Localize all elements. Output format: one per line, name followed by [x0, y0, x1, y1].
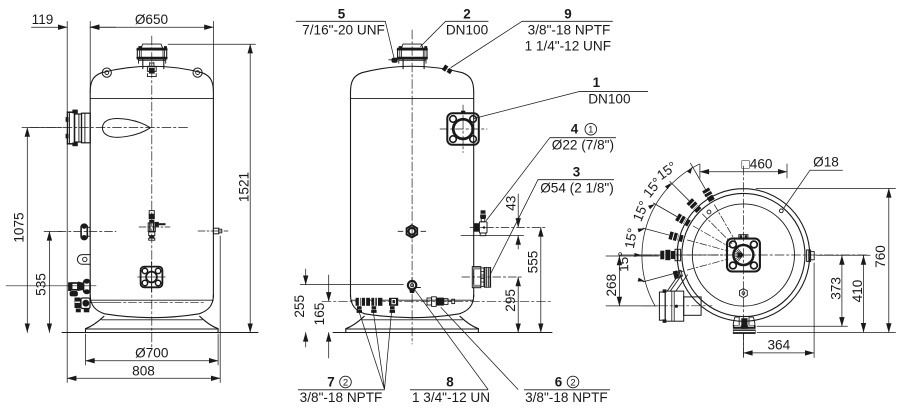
svg-text:255: 255	[292, 295, 307, 318]
svg-text:3/8"-18 NPTF: 3/8"-18 NPTF	[525, 390, 608, 405]
bottom plug group 3 (3/8-18 NPTF)	[389, 298, 398, 313]
svg-text:295: 295	[503, 289, 518, 312]
lifting lug left	[102, 68, 111, 77]
fitting 7/16-20 UNF (callout 5 target)	[389, 58, 398, 63]
dimension 373	[757, 256, 848, 327]
boss Ø54 on right wall (callout 3 target)	[462, 267, 522, 288]
dome head	[351, 66, 474, 92]
svg-text:760: 760	[873, 245, 888, 268]
dimension Ø650	[90, 21, 213, 92]
svg-text:2: 2	[570, 378, 575, 389]
lifting lug right	[193, 68, 202, 77]
leader callout 8	[413, 288, 488, 390]
horizontal centerline (torpedo nozzle axis)	[30, 127, 188, 129]
shoulder fitting (callout 9 target)	[442, 65, 453, 75]
axis line 195deg	[643, 259, 728, 282]
svg-text:1521: 1521	[237, 172, 252, 202]
leader callout 5	[385, 21, 394, 58]
dimension 364	[743, 263, 814, 358]
rim hole right (Ø18)	[779, 209, 783, 213]
small plug on right wall	[198, 228, 228, 234]
dimension 165	[328, 275, 330, 358]
svg-text:364: 364	[767, 338, 790, 353]
radial plug 165deg	[642, 224, 729, 254]
dimension 555	[540, 227, 542, 332]
dimension 760	[756, 188, 896, 332]
square flange (side view center)	[138, 262, 165, 292]
svg-text:119: 119	[32, 12, 54, 27]
bracket tab with hole on left wall	[77, 255, 90, 265]
double plug assembly on left wall (y302)	[75, 298, 206, 313]
radial plug 150deg	[651, 200, 731, 251]
leader callout 4	[486, 138, 550, 221]
svg-text:2: 2	[463, 6, 470, 21]
small oval nozzle on left wall	[58, 224, 116, 239]
svg-text:3/8"-18 NPTF: 3/8"-18 NPTF	[528, 23, 611, 38]
svg-text:1: 1	[588, 125, 593, 136]
radial plug 180deg	[619, 249, 727, 261]
leader callout 3	[491, 180, 539, 274]
vertical centerline	[742, 166, 744, 359]
rim hole left	[707, 210, 711, 214]
bottom plug group 2 (3/8-18 NPTF)	[371, 298, 382, 313]
svg-text:4: 4	[571, 122, 579, 137]
hex valve on shell mid (front)	[398, 225, 426, 237]
svg-text:1 3/4"-12 UN: 1 3/4"-12 UN	[412, 390, 490, 405]
angular dimension arc	[642, 164, 699, 306]
tank shell (side view)	[86, 66, 219, 332]
svg-text:5: 5	[338, 6, 346, 21]
svg-text:2: 2	[343, 378, 348, 389]
side nozzle (torpedo) assembly in top view, axis y=305.8	[642, 269, 712, 322]
apex vent fitting	[147, 63, 156, 77]
svg-text:1 1/4"-12 UNF: 1 1/4"-12 UNF	[525, 39, 611, 54]
svg-text:7: 7	[327, 374, 334, 389]
svg-text:8: 8	[446, 374, 454, 389]
vertical centerline	[151, 36, 153, 348]
svg-text:268: 268	[604, 274, 619, 297]
dome weld seam	[90, 98, 213, 100]
svg-text:410: 410	[850, 279, 865, 302]
svg-text:9: 9	[564, 6, 571, 21]
radial plug 135deg	[667, 179, 735, 247]
leader callout 9	[451, 21, 522, 67]
arc arrow heads (radially outward)	[634, 166, 694, 284]
side nozzle flange with torpedo diffuser	[66, 110, 151, 147]
body	[665, 291, 684, 321]
top flange stack	[137, 44, 167, 69]
dimension square460	[700, 164, 787, 178]
svg-text:15°: 15°	[616, 251, 632, 272]
dome crown circle	[692, 204, 794, 306]
dimension 410	[817, 255, 870, 332]
round boss on shell (callout 8 target)	[408, 278, 421, 294]
svg-text:3/8"-18 NPTF: 3/8"-18 NPTF	[300, 390, 383, 405]
svg-text:Ø22 (7/8"): Ø22 (7/8")	[552, 138, 614, 153]
slanted connector pipe up to rim	[667, 269, 687, 291]
svg-text:DN100: DN100	[446, 23, 489, 38]
dimension 255	[300, 269, 403, 347]
dimension 535	[44, 231, 62, 332]
svg-text:535: 535	[34, 273, 49, 296]
center valve fitting (side view)	[139, 211, 170, 241]
svg-text:3: 3	[573, 165, 580, 180]
svg-text:1: 1	[593, 75, 601, 90]
valve assembly on left wall (y285)	[6, 280, 96, 297]
svg-text:555: 555	[526, 251, 541, 274]
fitting Ø22 on right wall (callout 4 target)	[470, 210, 547, 235]
bottom dish	[351, 295, 474, 318]
horizontal centerline	[643, 254, 868, 256]
bottom plug group 1 (3/8-18 NPTF)	[356, 298, 370, 313]
barrel to rim	[684, 297, 701, 315]
svg-text:6: 6	[555, 374, 562, 389]
bottom foot / drain fitting	[733, 317, 756, 334]
torpedo	[102, 119, 150, 138]
shell circle Ø650	[682, 193, 805, 316]
leader callout 1	[474, 91, 580, 118]
svg-text:15°: 15°	[622, 227, 640, 250]
svg-text:Ø54 (2 1/8"): Ø54 (2 1/8")	[540, 181, 614, 196]
svg-text:808: 808	[132, 363, 155, 378]
small hex plug below center	[740, 289, 748, 298]
flange plate	[659, 292, 665, 320]
floor / ground line	[333, 331, 552, 333]
leader Ø18	[784, 170, 843, 208]
dimension 119	[32, 21, 117, 120]
skirt	[346, 316, 364, 332]
base ring circle Ø700	[677, 189, 810, 322]
dimension Ø700	[86, 334, 219, 365]
svg-text:7/16"-20 UNF: 7/16"-20 UNF	[302, 23, 385, 38]
DN100 square flange on shell front (callout 1 target)	[440, 105, 487, 153]
svg-text:Ø700: Ø700	[135, 346, 169, 361]
bottom dish	[90, 295, 213, 318]
dome weld seam	[351, 98, 474, 100]
svg-text:Ø650: Ø650	[135, 12, 169, 27]
tank shell (front view)	[346, 66, 479, 332]
top flange stack	[398, 44, 428, 69]
leader callout 2	[421, 21, 446, 46]
bottom right valve assembly (callout 6 target)	[427, 297, 455, 307]
dimension 1075	[22, 128, 62, 333]
right rim fitting	[807, 250, 815, 261]
dimension 295	[517, 277, 519, 332]
dome head	[90, 66, 213, 92]
skirt	[86, 316, 104, 332]
radial plug 120deg	[687, 161, 739, 243]
center manhole flange	[727, 235, 760, 272]
svg-text:43: 43	[504, 196, 519, 211]
dimension 268	[606, 256, 659, 306]
dimension 808	[67, 130, 220, 383]
leader callout 7 (three lines)	[359, 311, 392, 389]
bottom fittings row centerline	[322, 300, 552, 302]
underlines for callouts	[296, 21, 648, 390]
svg-text:DN100: DN100	[588, 92, 631, 107]
svg-text:165: 165	[312, 303, 327, 326]
svg-text:373: 373	[829, 277, 844, 300]
dimension 43	[461, 194, 524, 249]
floor / ground line	[62, 331, 258, 333]
vertical centerline	[411, 30, 413, 344]
svg-text:1075: 1075	[12, 212, 27, 242]
svg-text:Ø18: Ø18	[813, 155, 839, 170]
dimension 1521	[168, 44, 256, 332]
leader callout 6	[441, 308, 518, 390]
svg-text:□460: □460	[742, 157, 773, 172]
